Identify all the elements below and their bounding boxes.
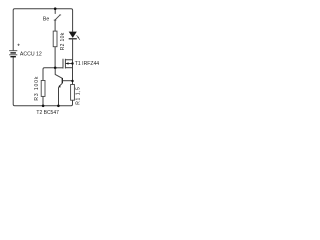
- MOSFET T1 drain stub + body stub + source stub: [65, 64, 72, 68]
- transistor T2 base lead to source node: [63, 80, 73, 82]
- switch S (Be) lever: [55, 15, 61, 20]
- node junction dot T1 body/source: [71, 62, 73, 64]
- battery ACCU12 plate short thick bottom (-): [10, 56, 16, 58]
- LED cathode bar: [69, 38, 77, 40]
- node junction dot gate net: [54, 67, 57, 70]
- svg-text:R3 100k: R3 100k: [34, 76, 40, 101]
- svg-text:Be: Be: [43, 17, 49, 23]
- battery ACCU12 plate short thick: [10, 52, 16, 54]
- transistor T2 base bar: [61, 78, 63, 83]
- wire bottom rail from battery - down, right to R1 bottom: [13, 57, 72, 106]
- node junction dot top rail / switch branch: [54, 7, 57, 10]
- battery plus sign: [17, 44, 19, 46]
- wire left rail from battery + up to top rail, across, down to LED anode: [13, 9, 72, 51]
- MOSFET T1 body arrow (points to channel, N-ch): [66, 62, 69, 64]
- resistor R1 body: [71, 85, 75, 101]
- node junction dot T2 emitter / bottom rail: [57, 105, 60, 108]
- wire R2 bottom to gate node: [54, 47, 56, 68]
- MOSFET T1 drain-source vertical lead: [72, 60, 74, 85]
- transistor T2 emitter arrowhead: [58, 85, 61, 87]
- wire switch bottom to R2 top: [54, 20, 56, 31]
- wire switch branch: top dot to switch top contact: [54, 9, 56, 14]
- resistor R3 body: [41, 81, 45, 97]
- MOSFET T1 gate bar: [62, 59, 64, 69]
- resistor R2 body: [53, 31, 57, 47]
- transistor T2 emitter diagonal with arrow: [59, 83, 62, 86]
- wire R3 bottom to bottom rail: [42, 96, 44, 105]
- MOSFET T1 channel bar: [64, 59, 66, 69]
- svg-text:T1 IRFZ44: T1 IRFZ44: [75, 61, 100, 67]
- wire gate node right to T1 gate: [55, 67, 63, 69]
- svg-text:R2 10k: R2 10k: [60, 32, 66, 50]
- LED emission arrows: [77, 35, 81, 39]
- LED D1 triangle (anode top): [69, 32, 77, 38]
- transistor T2 emitter lead down to rail: [58, 87, 60, 105]
- svg-text:R1 1,5: R1 1,5: [75, 87, 81, 105]
- svg-text:ACCU 12: ACCU 12: [20, 52, 42, 58]
- node junction dot R3 / bottom rail: [42, 105, 45, 108]
- transistor T2 collector lead (from gate node down then diagonal to bar): [55, 68, 62, 78]
- wire gate node left to corner and down to R3 top: [43, 68, 55, 81]
- svg-text:T2 BC547: T2 BC547: [36, 110, 59, 116]
- switch bottom contact tick: [54, 19, 57, 21]
- battery ACCU12 plate long lower: [9, 54, 17, 56]
- node junction dot base/source sense: [71, 80, 73, 82]
- wire LED cathode down to T1 drain corner and drain stub: [65, 39, 72, 59]
- battery ACCU12 plate long top (+): [9, 50, 17, 52]
